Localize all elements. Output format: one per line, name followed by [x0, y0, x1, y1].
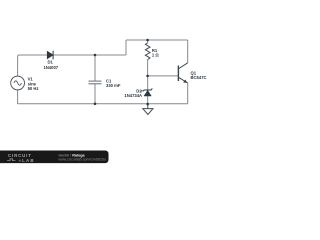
svg-text:«LAB: «LAB	[19, 158, 35, 163]
node junction dot C1 top	[94, 54, 97, 57]
wire: V1 bottom lead	[17, 90, 19, 104]
wire: C1 bottom lead	[94, 84, 96, 104]
voltage source V1	[11, 76, 25, 90]
node junction dot base node	[146, 75, 149, 78]
wire: top horizontal right segment	[126, 39, 188, 41]
capacitor C1	[89, 81, 102, 84]
wire: zener top lead	[147, 76, 149, 90]
svg-text:D1: D1	[48, 59, 54, 64]
svg-text:50 Hz: 50 Hz	[28, 86, 39, 91]
label D2 with leader	[140, 90, 142, 92]
svg-text:330 mF: 330 mF	[106, 83, 121, 88]
wire: V1 top lead up	[18, 55, 20, 76]
svg-text:1N4007: 1N4007	[43, 65, 58, 70]
wire: emitter vertical	[187, 83, 189, 104]
wire: R1 bottom lead	[147, 60, 149, 76]
ground	[143, 104, 153, 114]
watermark banner	[0, 151, 109, 164]
svg-text:www.circuitlab.com/c/w6826u: www.circuitlab.com/c/w6826u	[59, 157, 107, 161]
node junction dot ground node	[146, 103, 149, 106]
svg-text:1N4734A: 1N4734A	[124, 93, 142, 98]
diode D1	[47, 51, 53, 60]
node junction dot C1 bottom	[94, 103, 97, 106]
wire: bottom horizontal rail	[18, 103, 188, 105]
wire: collector vertical	[187, 40, 189, 63]
wire: R1 top lead	[147, 40, 149, 43]
wire: step vertical	[125, 40, 127, 55]
svg-text:1 Ω: 1 Ω	[152, 53, 159, 58]
resistor R1	[145, 43, 150, 60]
zener diode D2	[143, 88, 153, 96]
node junction dot R1 top	[146, 39, 149, 42]
transistor Q1	[178, 63, 187, 83]
wire: zener bottom lead to rail	[147, 96, 149, 104]
wire: top horizontal left segment to step	[19, 54, 127, 56]
wire: C1 top lead	[94, 55, 96, 81]
wire: base horizontal	[148, 75, 179, 77]
svg-text:BC547C: BC547C	[191, 75, 207, 80]
Q1 emitter arrow	[183, 80, 187, 83]
